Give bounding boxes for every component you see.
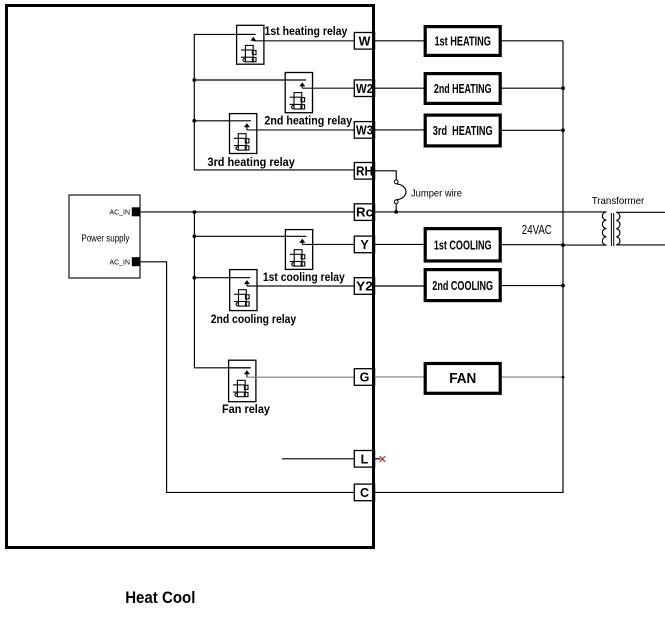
- svg-text:G: G: [360, 371, 370, 385]
- svg-text:Transformer: Transformer: [592, 195, 645, 207]
- svg-text:1st HEATING: 1st HEATING: [434, 34, 491, 49]
- svg-text:W3: W3: [356, 124, 373, 138]
- svg-text:Y: Y: [360, 238, 369, 252]
- svg-text:Jumper wire: Jumper wire: [411, 189, 462, 200]
- svg-text:L: L: [361, 452, 369, 466]
- svg-text:24VAC: 24VAC: [522, 222, 552, 237]
- svg-text:3rd HEATING: 3rd HEATING: [433, 123, 493, 138]
- svg-text:C: C: [360, 486, 369, 500]
- svg-text:1st COOLING: 1st COOLING: [434, 238, 492, 253]
- svg-text:1st heating relay: 1st heating relay: [265, 24, 348, 38]
- svg-text:2nd COOLING: 2nd COOLING: [432, 278, 493, 293]
- svg-text:AC_IN: AC_IN: [110, 259, 131, 266]
- svg-text:W: W: [359, 34, 371, 48]
- svg-text:Y2: Y2: [356, 280, 373, 294]
- svg-text:W2: W2: [356, 82, 373, 96]
- svg-text:Fan relay: Fan relay: [222, 402, 270, 416]
- svg-text:FAN: FAN: [449, 371, 476, 387]
- svg-text:Heat Cool: Heat Cool: [125, 589, 195, 607]
- svg-text:2nd HEATING: 2nd HEATING: [434, 81, 492, 96]
- svg-text:Rc: Rc: [356, 206, 373, 220]
- svg-text:Power supply: Power supply: [81, 234, 129, 245]
- svg-text:AC_IN: AC_IN: [110, 210, 131, 217]
- svg-text:2nd cooling relay: 2nd cooling relay: [211, 312, 297, 326]
- svg-text:2nd heating relay: 2nd heating relay: [264, 114, 352, 128]
- svg-text:RH: RH: [356, 164, 373, 178]
- svg-text:1st cooling relay: 1st cooling relay: [263, 270, 345, 284]
- svg-text:3rd heating relay: 3rd heating relay: [208, 155, 296, 169]
